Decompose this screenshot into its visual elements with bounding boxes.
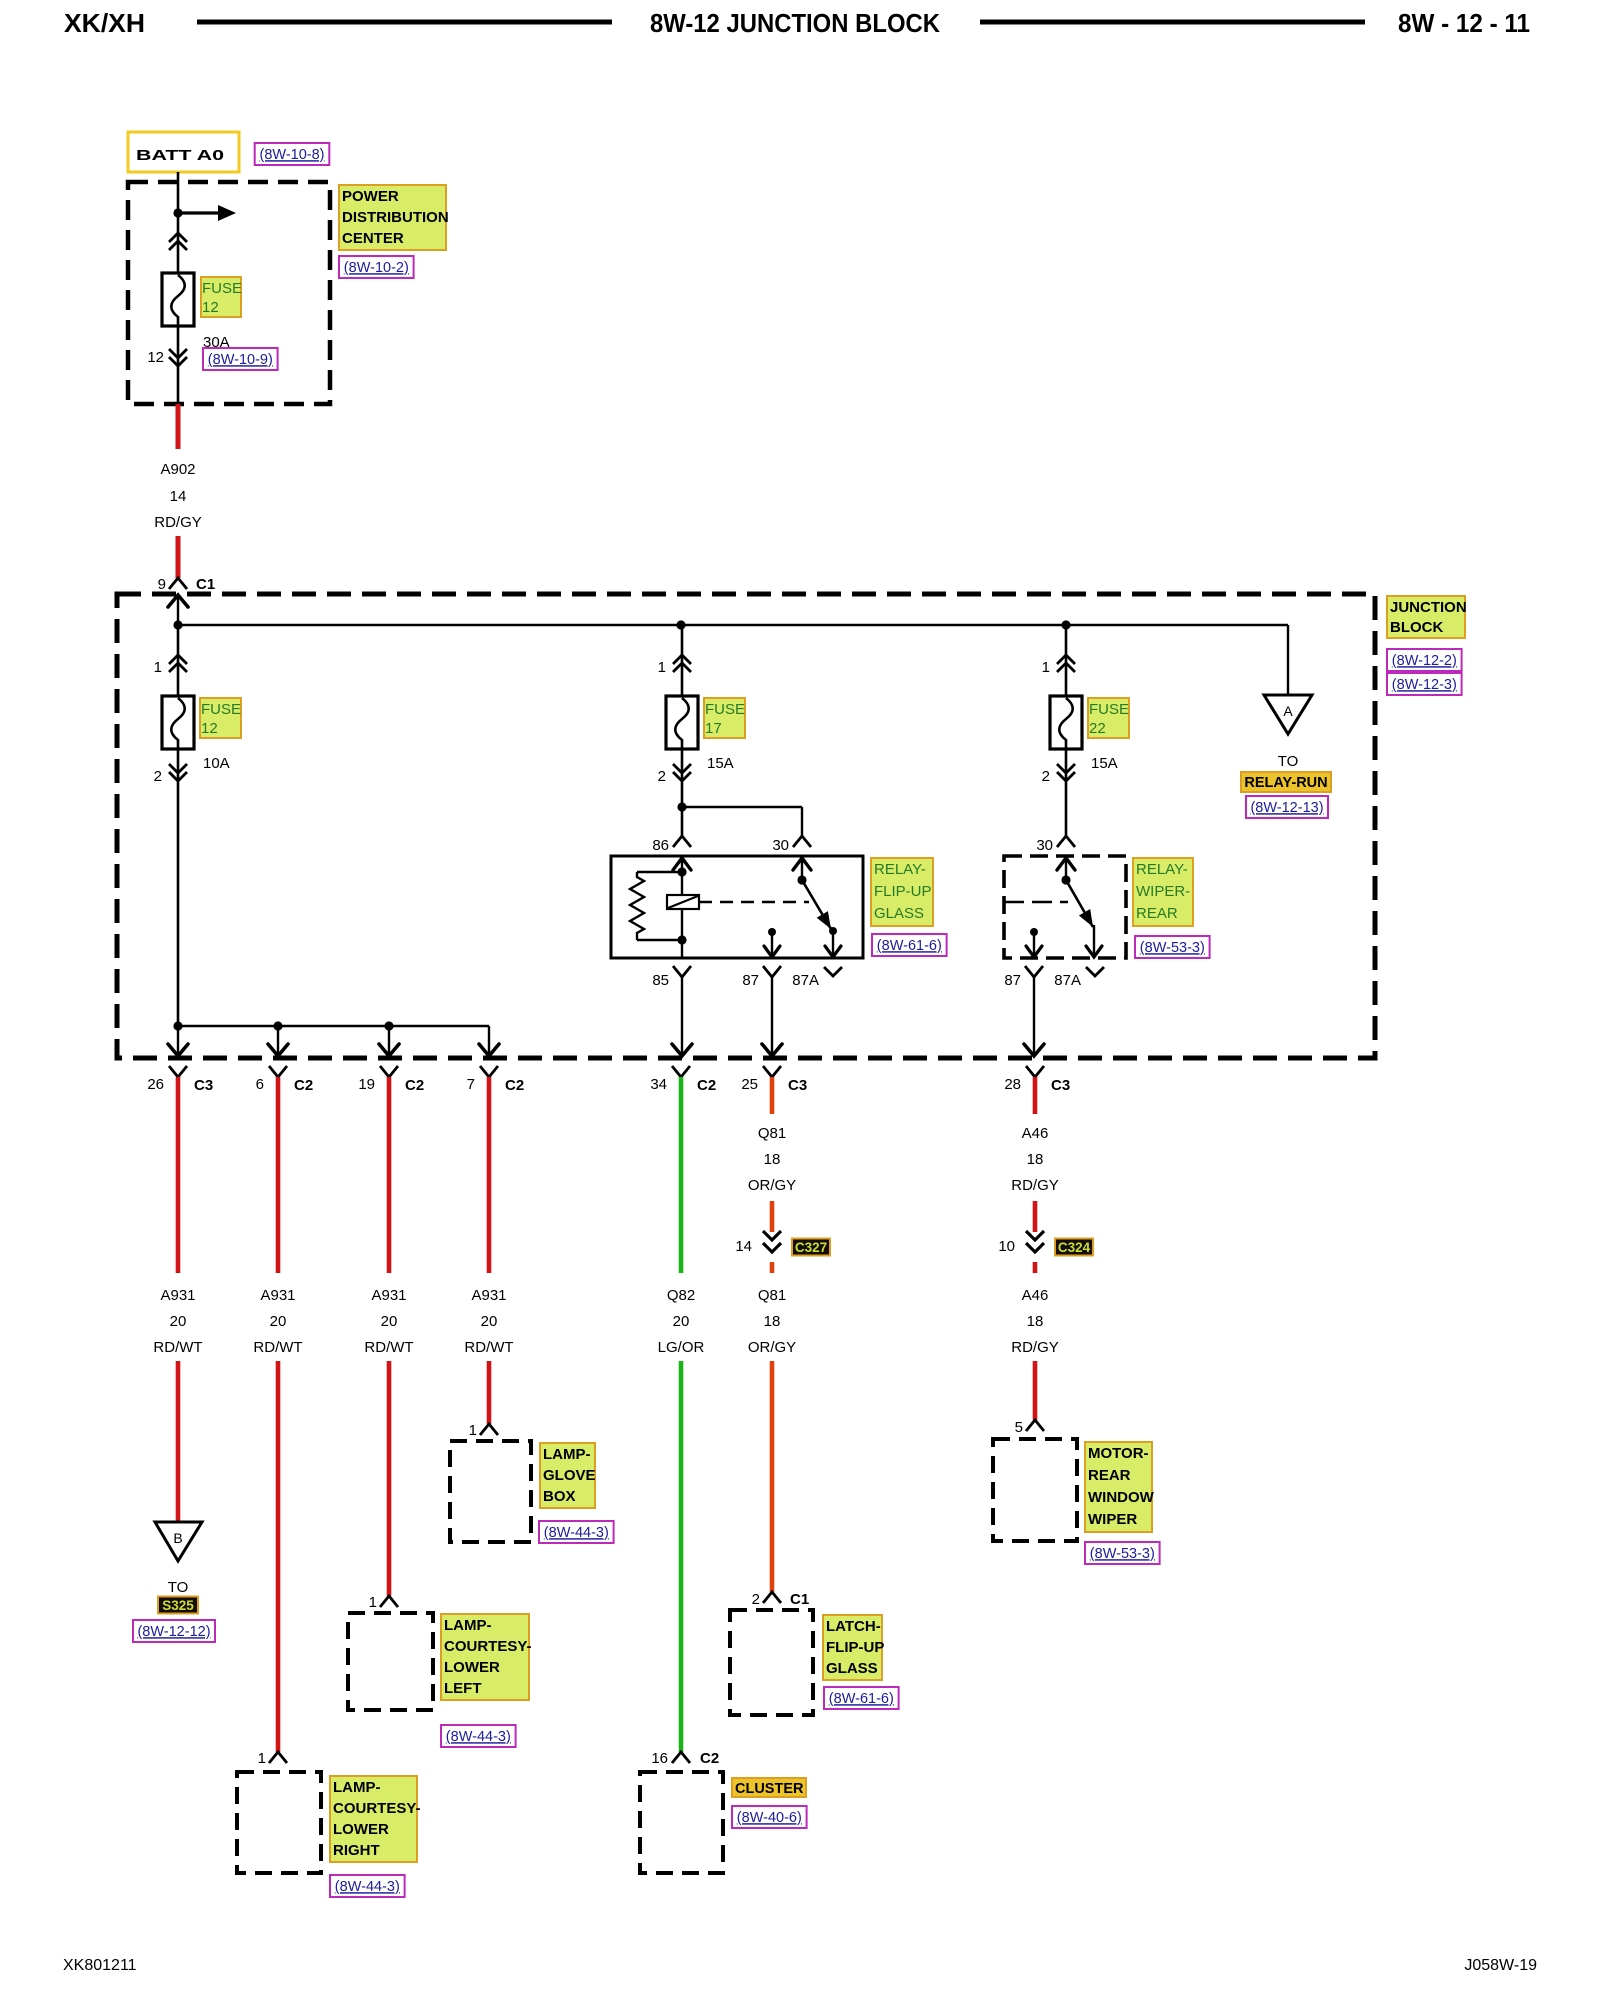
svg-text:C1: C1	[196, 576, 215, 593]
svg-text:Q81: Q81	[758, 1287, 786, 1304]
svg-text:C327: C327	[795, 1240, 827, 1255]
relay K2 dashed actuator link	[1004, 901, 1068, 903]
svg-text:1: 1	[1042, 659, 1050, 676]
svg-text:(8W-44-3): (8W-44-3)	[544, 1525, 609, 1541]
svg-text:(8W-12-13): (8W-12-13)	[1250, 800, 1323, 816]
svg-text:RIGHT: RIGHT	[333, 1842, 380, 1859]
wire A931 RD/WT (19)	[387, 1077, 392, 1273]
relay K2 pin 87A mark	[1054, 967, 1104, 989]
wire Q81 below C327	[770, 1262, 775, 1273]
svg-text:10A: 10A	[203, 755, 230, 772]
svg-text:DISTRIBUTION: DISTRIBUTION	[342, 209, 449, 226]
svg-text:WIPER-: WIPER-	[1136, 883, 1190, 900]
bus wire inside junction block	[173, 620, 1288, 629]
relay K2 switch	[1057, 857, 1102, 957]
svg-text:BLOCK: BLOCK	[1390, 619, 1443, 636]
svg-text:C2: C2	[697, 1077, 716, 1094]
svg-text:RD/GY: RD/GY	[1011, 1177, 1059, 1194]
svg-text:LATCH-: LATCH-	[826, 1618, 881, 1635]
svg-text:RD/GY: RD/GY	[1011, 1339, 1059, 1356]
fuse 17 pin 2	[658, 749, 691, 836]
value 10A	[203, 755, 230, 772]
svg-text:8W-12 JUNCTION BLOCK: 8W-12 JUNCTION BLOCK	[650, 8, 940, 38]
svg-text:TO: TO	[1278, 753, 1299, 770]
link 8W-12-12	[133, 1620, 215, 1642]
svg-text:C2: C2	[505, 1077, 524, 1094]
label JUNCTION BLOCK	[1387, 596, 1467, 638]
value 15A (fuse 22)	[1091, 755, 1118, 772]
link 8W-53-3 (relay)	[1135, 936, 1210, 958]
wire A931 lower (26)	[176, 1361, 181, 1522]
svg-text:(8W-61-6): (8W-61-6)	[877, 938, 942, 954]
svg-text:12: 12	[202, 299, 219, 316]
link 8W-12-2	[1387, 649, 1462, 671]
link 8W-10-8	[255, 143, 330, 165]
svg-text:(8W-44-3): (8W-44-3)	[446, 1729, 511, 1745]
svg-text:10: 10	[998, 1238, 1015, 1255]
connector pin 5 (motor)	[1015, 1419, 1044, 1436]
svg-text:S325: S325	[162, 1598, 194, 1613]
fuse 12 pin 2	[154, 749, 187, 1026]
svg-text:A46: A46	[1022, 1125, 1049, 1142]
svg-text:6: 6	[256, 1076, 264, 1093]
component CLUSTER box	[640, 1772, 723, 1873]
svg-text:A931: A931	[160, 1287, 195, 1304]
label FUSE 12 (PDC)	[201, 277, 242, 317]
svg-text:18: 18	[764, 1313, 781, 1330]
label RELAY-FLIP-UP GLASS	[871, 858, 933, 926]
svg-text:FUSE: FUSE	[202, 280, 242, 297]
svg-text:9: 9	[158, 576, 166, 593]
svg-text:18: 18	[1027, 1151, 1044, 1168]
link 8W-61-6 (latch)	[824, 1687, 899, 1709]
svg-text:2: 2	[752, 1591, 760, 1608]
wire A902 14 RD/GY	[154, 404, 202, 578]
splice symbol B	[155, 1522, 202, 1561]
label POWER DISTRIBUTION CENTER	[339, 185, 449, 250]
svg-text:5: 5	[1015, 1419, 1023, 1436]
svg-text:A46: A46	[1022, 1287, 1049, 1304]
relay K2 pin 30 connector	[1036, 836, 1075, 854]
svg-text:1: 1	[369, 1594, 377, 1611]
svg-text:RELAY-: RELAY-	[874, 861, 926, 878]
page footer	[63, 1957, 1537, 1974]
svg-text:(8W-53-3): (8W-53-3)	[1140, 940, 1205, 956]
relay K1 pin 87 connector	[742, 966, 782, 1056]
fuse 22 pin 2	[1042, 749, 1075, 836]
wire to splice A	[1287, 625, 1289, 695]
connector pin 1 (lamp courtesy lower left)	[369, 1594, 398, 1611]
relay K1 coil box symbol	[667, 895, 699, 909]
relay K1 pin 86 connector	[652, 836, 691, 854]
fuse 22 pin 1	[1042, 625, 1075, 696]
fuse 22	[1050, 696, 1082, 749]
svg-text:FUSE: FUSE	[1089, 701, 1129, 718]
svg-text:34: 34	[650, 1076, 667, 1093]
svg-text:FLIP-UP: FLIP-UP	[826, 1639, 884, 1656]
wire A931 RD/WT (6)	[276, 1077, 281, 1273]
relay K1 dashed actuator link	[699, 901, 809, 903]
relay K2 pin 87 stub	[1026, 928, 1042, 957]
svg-text:14: 14	[735, 1238, 752, 1255]
link 8W-12-3	[1387, 673, 1462, 695]
splice symbol A	[1264, 695, 1312, 734]
text TO RELAY-RUN	[1241, 753, 1331, 792]
relay K1 coil branch	[637, 857, 691, 958]
label LAMP-GLOVE BOX	[540, 1443, 596, 1508]
svg-text:87A: 87A	[792, 972, 819, 989]
label CLUSTER	[732, 1778, 806, 1797]
svg-text:87A: 87A	[1054, 972, 1081, 989]
wire A931 RD/WT (26)	[176, 1077, 181, 1273]
svg-text:BATT A0: BATT A0	[136, 147, 224, 164]
svg-text:(8W-12-2): (8W-12-2)	[1392, 653, 1457, 669]
svg-text:(8W-10-9): (8W-10-9)	[208, 352, 273, 368]
connector 25 C3	[741, 1066, 807, 1094]
svg-text:(8W-12-12): (8W-12-12)	[137, 1624, 210, 1640]
wire A46 lower	[1033, 1361, 1038, 1420]
link 8W-40-6	[732, 1806, 807, 1828]
relay K1 pin 85 connector	[652, 966, 692, 1056]
connector 19 C2	[358, 1066, 424, 1094]
svg-text:20: 20	[270, 1313, 287, 1330]
svg-text:COURTESY-: COURTESY-	[444, 1638, 532, 1655]
svg-text:(8W-40-6): (8W-40-6)	[737, 1810, 802, 1826]
label MOTOR-REAR WINDOW WIPER	[1085, 1442, 1155, 1532]
label FUSE 22	[1088, 698, 1129, 738]
svg-text:C2: C2	[294, 1077, 313, 1094]
svg-text:BOX: BOX	[543, 1488, 576, 1505]
svg-text:Q81: Q81	[758, 1125, 786, 1142]
svg-text:LAMP-: LAMP-	[543, 1446, 591, 1463]
svg-text:LOWER: LOWER	[333, 1821, 389, 1838]
svg-text:FUSE: FUSE	[201, 701, 241, 718]
svg-text:C324: C324	[1058, 1240, 1091, 1255]
wire label A931 20 RD/WT (19)	[364, 1287, 413, 1356]
wire A931 RD/WT (7)	[487, 1077, 492, 1273]
link 8W-44-3 (glove box)	[539, 1521, 614, 1543]
relay K1 coil resistor	[630, 872, 644, 940]
svg-text:RD/GY: RD/GY	[154, 514, 202, 531]
component LATCH-FLIP-UP GLASS box	[730, 1610, 813, 1715]
relay K1 RELAY-FLIP-UP GLASS box	[611, 856, 863, 958]
svg-text:A931: A931	[260, 1287, 295, 1304]
svg-text:(8W-12-3): (8W-12-3)	[1392, 677, 1457, 693]
svg-text:8W - 12 - 11: 8W - 12 - 11	[1398, 8, 1530, 38]
svg-text:20: 20	[381, 1313, 398, 1330]
label LAMP-COURTESY-LOWER RIGHT	[330, 1776, 421, 1862]
relay K1 pin 87 stub	[764, 928, 780, 957]
wire A46 mid	[1033, 1201, 1038, 1232]
svg-text:Q82: Q82	[667, 1287, 695, 1304]
text TO S325	[158, 1579, 198, 1614]
svg-text:19: 19	[358, 1076, 375, 1093]
connector 10 C324	[998, 1231, 1093, 1256]
svg-text:REAR: REAR	[1136, 905, 1178, 922]
link 8W-44-3 (lamp right)	[330, 1875, 405, 1897]
wire A46 RD/GY upper	[1033, 1077, 1038, 1114]
branch to relay pin 30	[682, 807, 802, 836]
svg-text:REAR: REAR	[1088, 1467, 1131, 1484]
svg-text:RELAY-RUN: RELAY-RUN	[1244, 775, 1327, 791]
svg-text:MOTOR-: MOTOR-	[1088, 1445, 1149, 1462]
svg-text:B: B	[173, 1530, 182, 1546]
label LAMP-COURTESY-LOWER LEFT	[441, 1614, 532, 1700]
wire Q82 lower	[679, 1361, 684, 1752]
wire Q81 OR/GY upper	[770, 1077, 775, 1114]
svg-text:XK801211: XK801211	[63, 1957, 137, 1974]
component LAMP-COURTESY-LOWER RIGHT box	[237, 1772, 321, 1873]
svg-text:CENTER: CENTER	[342, 230, 404, 247]
svg-text:C2: C2	[405, 1077, 424, 1094]
svg-text:2: 2	[658, 768, 666, 785]
in-line connector chevrons (PDC top)	[169, 233, 187, 250]
page header	[64, 8, 1530, 38]
link 8W-53-3 (motor)	[1085, 1542, 1160, 1564]
svg-text:15A: 15A	[1091, 755, 1118, 772]
relay K1 pin 30 connector	[772, 836, 811, 854]
connector 26 C3	[147, 1066, 213, 1094]
link 8W-61-6 (relay)	[872, 934, 947, 956]
wire label A931 20 RD/WT (6)	[253, 1287, 302, 1356]
svg-text:(8W-53-3): (8W-53-3)	[1090, 1546, 1155, 1562]
svg-text:30: 30	[1036, 837, 1053, 854]
svg-text:JUNCTION: JUNCTION	[1390, 599, 1467, 616]
svg-text:20: 20	[673, 1313, 690, 1330]
svg-text:GLOVE: GLOVE	[543, 1467, 596, 1484]
node BATT A0	[128, 132, 239, 172]
fuse 12 (PDC) 30A	[162, 273, 194, 326]
component LAMP-GLOVE BOX box	[450, 1441, 531, 1542]
svg-text:GLASS: GLASS	[826, 1660, 878, 1677]
label RELAY-WIPER-REAR	[1133, 858, 1193, 926]
wire label A46 18 RD/GY (lower)	[1011, 1287, 1059, 1356]
svg-text:FLIP-UP: FLIP-UP	[874, 883, 932, 900]
svg-text:A931: A931	[471, 1287, 506, 1304]
svg-text:28: 28	[1004, 1076, 1021, 1093]
connector 16 C2 (cluster)	[651, 1750, 719, 1767]
wire Q82 LG/OR	[679, 1077, 684, 1273]
svg-text:WIPER: WIPER	[1088, 1511, 1137, 1528]
svg-text:RD/WT: RD/WT	[464, 1339, 513, 1356]
wire label Q82 20 LG/OR	[658, 1287, 705, 1356]
wire Q81 lower	[770, 1361, 775, 1592]
link 8W-10-2	[339, 256, 414, 278]
svg-text:POWER: POWER	[342, 188, 399, 205]
svg-text:87: 87	[742, 972, 759, 989]
link 8W-10-9	[203, 348, 278, 370]
svg-text:1: 1	[258, 1750, 266, 1767]
svg-text:LEFT: LEFT	[444, 1680, 482, 1697]
svg-text:LOWER: LOWER	[444, 1659, 500, 1676]
svg-text:20: 20	[170, 1313, 187, 1330]
svg-text:OR/GY: OR/GY	[748, 1339, 796, 1356]
svg-text:25: 25	[741, 1076, 758, 1093]
wire BATT to fuse 12 (PDC)	[173, 172, 182, 273]
svg-text:LG/OR: LG/OR	[658, 1339, 705, 1356]
pin 12 + chevrons	[147, 326, 187, 404]
svg-text:86: 86	[652, 837, 669, 854]
junction block box	[117, 594, 1375, 1058]
svg-text:RD/WT: RD/WT	[364, 1339, 413, 1356]
svg-text:87: 87	[1004, 972, 1021, 989]
svg-text:A931: A931	[371, 1287, 406, 1304]
wire A931 lower (7)	[487, 1361, 492, 1424]
wire Q81 mid	[770, 1201, 775, 1232]
svg-text:1: 1	[469, 1422, 477, 1439]
svg-text:COURTESY-: COURTESY-	[333, 1800, 421, 1817]
connector 6 C2	[256, 1066, 314, 1094]
connector 34 C2	[650, 1066, 716, 1094]
relay K2 pin 87 connector	[1004, 966, 1044, 1056]
svg-text:16: 16	[651, 1750, 668, 1767]
entry arrow into junction block	[168, 595, 188, 625]
wire label A46 18 RD/GY (upper)	[1011, 1125, 1059, 1194]
svg-text:2: 2	[1042, 768, 1050, 785]
svg-text:TO: TO	[168, 1579, 189, 1596]
relay K2 RELAY-WIPER-REAR box	[1004, 856, 1126, 958]
svg-text:1: 1	[658, 659, 666, 676]
svg-text:CLUSTER: CLUSTER	[735, 1781, 804, 1797]
wire A931 lower (19)	[387, 1361, 392, 1596]
svg-text:C1: C1	[790, 1591, 809, 1608]
connector 2 C1 (latch)	[752, 1591, 810, 1608]
svg-text:2: 2	[154, 768, 162, 785]
wire label A931 20 RD/WT (7)	[464, 1287, 513, 1356]
label LATCH-FLIP-UP GLASS	[823, 1615, 884, 1680]
connector 14 C327	[735, 1231, 830, 1256]
connector pin 1 (lamp glove box)	[469, 1422, 498, 1439]
svg-text:RD/WT: RD/WT	[253, 1339, 302, 1356]
value 30A	[203, 334, 230, 351]
svg-text:(8W-44-3): (8W-44-3)	[335, 1879, 400, 1895]
power distribution center box	[128, 182, 330, 404]
svg-text:RD/WT: RD/WT	[153, 1339, 202, 1356]
svg-text:C3: C3	[788, 1077, 807, 1094]
link 8W-44-3 (lamp left)	[441, 1725, 516, 1747]
component LAMP-COURTESY-LOWER LEFT box	[348, 1613, 433, 1710]
svg-text:18: 18	[764, 1151, 781, 1168]
svg-text:OR/GY: OR/GY	[748, 1177, 796, 1194]
svg-text:C2: C2	[700, 1750, 719, 1767]
svg-text:(8W-10-2): (8W-10-2)	[344, 260, 409, 276]
label FUSE 12	[200, 698, 241, 738]
svg-text:14: 14	[170, 488, 187, 505]
svg-text:LAMP-: LAMP-	[444, 1617, 492, 1634]
svg-text:12: 12	[201, 720, 218, 737]
svg-text:20: 20	[481, 1313, 498, 1330]
svg-text:WINDOW: WINDOW	[1088, 1489, 1155, 1506]
connector 28 C3	[1004, 1066, 1070, 1094]
svg-text:18: 18	[1027, 1313, 1044, 1330]
svg-text:C3: C3	[194, 1077, 213, 1094]
wire label A931 20 RD/WT (26)	[153, 1287, 202, 1356]
relay K1 switch	[793, 857, 841, 957]
label FUSE 17	[704, 698, 745, 738]
component MOTOR-REAR WINDOW WIPER box	[993, 1439, 1077, 1541]
wire A931 lower (6)	[276, 1361, 281, 1752]
fuse 17	[666, 696, 698, 749]
svg-text:22: 22	[1089, 720, 1106, 737]
link 8W-12-13	[1246, 796, 1328, 818]
wire A46 below C324	[1033, 1262, 1038, 1273]
svg-text:(8W-61-6): (8W-61-6)	[829, 1691, 894, 1707]
wire label Q81 18 OR/GY (lower)	[748, 1287, 796, 1356]
svg-text:85: 85	[652, 972, 669, 989]
svg-text:C3: C3	[1051, 1077, 1070, 1094]
svg-text:A902: A902	[160, 461, 195, 478]
svg-text:30: 30	[772, 837, 789, 854]
svg-text:J058W-19: J058W-19	[1464, 1957, 1537, 1974]
value 15A	[707, 755, 734, 772]
fuse 12 pin 1	[154, 625, 187, 696]
connector pin 1 (lamp courtesy lower right)	[258, 1750, 287, 1767]
svg-text:XK/XH: XK/XH	[64, 8, 145, 38]
svg-text:(8W-10-8): (8W-10-8)	[260, 147, 325, 163]
svg-text:GLASS: GLASS	[874, 905, 924, 922]
svg-text:1: 1	[154, 659, 162, 676]
svg-text:26: 26	[147, 1076, 164, 1093]
svg-text:12: 12	[147, 349, 164, 366]
fuse 12 (junction block)	[162, 696, 194, 749]
svg-text:7: 7	[467, 1076, 475, 1093]
arrow feed to right	[178, 205, 236, 221]
svg-text:15A: 15A	[707, 755, 734, 772]
svg-text:FUSE: FUSE	[705, 701, 745, 718]
connector 9 C1	[158, 576, 216, 593]
connector 7 C2	[467, 1066, 525, 1094]
svg-text:LAMP-: LAMP-	[333, 1779, 381, 1796]
svg-text:A: A	[1283, 703, 1293, 719]
wire label Q81 18 OR/GY (upper)	[748, 1125, 796, 1194]
branch arrows to bottom edge	[168, 1026, 499, 1056]
collector wire	[173, 1021, 489, 1030]
svg-text:RELAY-: RELAY-	[1136, 861, 1188, 878]
fuse 17 pin 1	[658, 625, 691, 696]
svg-text:17: 17	[705, 720, 722, 737]
relay K1 pin 87A mark	[792, 967, 842, 989]
